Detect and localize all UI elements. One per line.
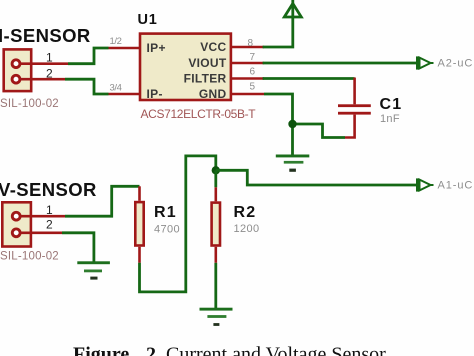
wire net J1.1 to U1 IP+: [68, 48, 109, 64]
svg-text:5: 5: [250, 82, 256, 93]
svg-text:C1: C1: [380, 96, 403, 113]
svg-text:A1-uC: A1-uC: [438, 180, 474, 192]
wire net junction to A1-uC: [216, 170, 417, 185]
junction GND node: [288, 120, 296, 128]
svg-text:VIOUT: VIOUT: [188, 56, 227, 70]
junction divider node: [212, 166, 220, 174]
wire net J1.2 to U1 IP-: [65, 79, 109, 94]
wire net VCC to supply: [263, 17, 293, 47]
svg-text:R1: R1: [154, 204, 177, 221]
pin stub U1 VCC pin8 (red): [232, 46, 264, 49]
wire net U1 GND down: [264, 94, 293, 155]
pin stub U1 IP+ (red): [109, 47, 140, 50]
connector J2 V-SENSOR: [2, 202, 31, 246]
svg-text:1nF: 1nF: [380, 113, 400, 125]
wire net C1 bottom to GND junction: [293, 124, 346, 138]
supply symbol VCC: [284, 0, 301, 17]
svg-text:8: 8: [248, 38, 254, 49]
svg-text:4700: 4700: [154, 224, 180, 236]
port arrow A2-uC: [416, 56, 434, 69]
pin stub U1 IP- (red): [109, 93, 140, 96]
pin stub U1 GND pin5 (red): [232, 93, 264, 96]
wire J2 pin1 stub (red): [21, 215, 65, 218]
svg-text:SIL-100-02: SIL-100-02: [0, 98, 59, 110]
svg-text:1200: 1200: [234, 223, 260, 235]
svg-text:I-SENSOR: I-SENSOR: [0, 25, 91, 46]
ground symbol (U1/C1): [276, 155, 310, 172]
svg-text:V-SENSOR: V-SENSOR: [0, 179, 97, 200]
pin stub U1 FILTER pin6 (red): [232, 77, 264, 80]
svg-text:SIL-100-02: SIL-100-02: [0, 251, 59, 263]
wire J1 pin1 stub (red): [21, 62, 68, 65]
pin stub U1 VIOUT pin7 (red): [232, 62, 264, 65]
wire J1 pin2 stub (red): [21, 78, 65, 81]
svg-text:R2: R2: [234, 204, 257, 221]
svg-text:A2-uC: A2-uC: [438, 58, 474, 70]
wire net J2.1 to R1: [65, 186, 140, 216]
svg-text:VCC: VCC: [200, 40, 226, 54]
svg-text:6: 6: [250, 67, 256, 78]
wire net R1 bottom to divider node: [140, 156, 216, 292]
connector J1 I-SENSOR: [4, 49, 32, 91]
capacitor C1: [338, 78, 371, 138]
wire net R2 bottom to ground: [214, 263, 217, 308]
resistor R1: [135, 186, 143, 262]
svg-text:IP+: IP+: [147, 41, 166, 55]
wire J2 pin2 stub (red): [21, 232, 62, 235]
resistor R2: [212, 187, 220, 262]
svg-text:U1: U1: [138, 12, 158, 28]
svg-text:7: 7: [250, 52, 256, 63]
ground symbol (R2): [200, 308, 233, 326]
svg-text:Figure2.Current and Voltage Se: Figure2.Current and Voltage Sensor: [73, 344, 386, 356]
svg-text:1/2: 1/2: [110, 36, 122, 47]
svg-text:2: 2: [46, 218, 53, 232]
wire net junction to R2: [214, 170, 217, 187]
svg-text:IP-: IP-: [147, 87, 163, 101]
svg-text:FILTER: FILTER: [184, 72, 227, 86]
svg-text:3/4: 3/4: [110, 83, 122, 94]
wire net VIOUT to A2-uC: [263, 62, 417, 65]
svg-text:GND: GND: [199, 87, 227, 101]
wire net FILTER to C1: [263, 77, 355, 80]
wire net J2.2 to ground: [62, 233, 94, 262]
IC U1 body: [140, 34, 231, 101]
ground symbol (V-SENSOR): [77, 261, 110, 279]
port arrow A1-uC: [416, 178, 434, 191]
svg-text:ACS712ELCTR-05B-T: ACS712ELCTR-05B-T: [141, 107, 257, 121]
